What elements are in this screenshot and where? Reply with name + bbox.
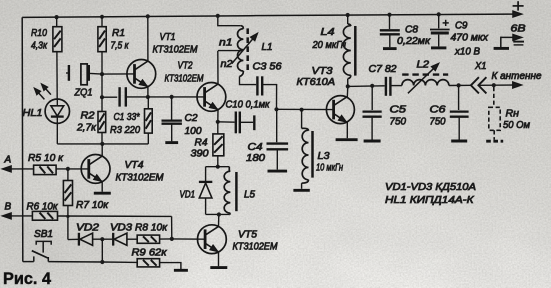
capacitor C8 xyxy=(380,30,400,34)
label C1 33* xyxy=(114,112,141,123)
wire VT2 collector xyxy=(217,51,219,84)
led HL1 emission arrows xyxy=(35,84,51,99)
node R2-VT4col xyxy=(100,142,104,146)
wire R1-node xyxy=(101,52,103,74)
wire C9 bottom xyxy=(438,35,440,47)
label C5 value xyxy=(390,117,407,128)
inductor L1 xyxy=(238,26,244,77)
wire L3 bottom xyxy=(301,183,303,189)
label C3 56 xyxy=(253,62,282,73)
label R1 xyxy=(112,28,125,39)
label VT4 xyxy=(125,160,144,171)
label 6 V xyxy=(511,24,526,35)
wire base bus VT3 xyxy=(277,108,334,110)
wire L4 top xyxy=(347,15,349,24)
wire R3 bottom xyxy=(147,133,149,144)
capacitor C9 (polar) xyxy=(430,30,450,34)
svg-text:С10 0,1мк: С10 0,1мк xyxy=(226,100,271,111)
label C8 xyxy=(405,25,418,36)
svg-text:n2: n2 xyxy=(221,59,233,70)
wire VT1 base xyxy=(102,73,135,75)
label VT5 type xyxy=(233,242,279,253)
svg-text:КТ610А: КТ610А xyxy=(297,77,336,88)
label C10 0,1mk xyxy=(226,100,271,111)
inductor L3 core xyxy=(311,131,314,178)
svg-text:С1 33*: С1 33* xyxy=(114,112,141,123)
svg-text:R5 10 к: R5 10 к xyxy=(28,153,64,164)
label 4,3k xyxy=(31,41,48,52)
svg-text:n1: n1 xyxy=(219,38,233,49)
svg-text:КТ3102ЕМ: КТ3102ЕМ xyxy=(153,45,199,56)
resistor R1 xyxy=(98,27,106,52)
label VD2 xyxy=(76,223,100,234)
inductor L2 arrow xyxy=(408,64,439,94)
led HL1 xyxy=(45,99,69,123)
label C9 value1 xyxy=(451,33,490,44)
wire R8-node xyxy=(160,238,172,240)
svg-text:R3 220: R3 220 xyxy=(110,125,140,136)
wire R7corner-VD2 xyxy=(68,238,78,240)
node rail-R1 xyxy=(100,15,104,19)
label Rn value xyxy=(503,120,530,131)
label R9 62k xyxy=(132,248,168,259)
svg-text:VT4: VT4 xyxy=(125,160,144,171)
label C6 xyxy=(430,105,447,116)
svg-text:КТ3102ЕМ: КТ3102ЕМ xyxy=(165,74,205,85)
wire VD-R9 vertical xyxy=(101,239,103,262)
label n2 xyxy=(221,59,233,70)
label R8 10k xyxy=(135,223,168,234)
label R5 10k xyxy=(28,153,64,164)
wire R2 top xyxy=(101,97,103,111)
label VT3 type xyxy=(297,77,336,88)
wire R9 right xyxy=(160,263,181,270)
wire VT3col-C7 xyxy=(348,85,385,88)
label = (minus) xyxy=(513,42,524,45)
wire VD3-R8 xyxy=(127,238,137,240)
label L5 xyxy=(244,190,255,201)
wire tank bottom xyxy=(206,213,230,215)
node VT1e-R3 xyxy=(146,95,150,99)
svg-text:Рис. 4: Рис. 4 xyxy=(3,270,52,288)
ground Rn (dashed) xyxy=(486,140,503,143)
wire C8 top xyxy=(389,15,391,29)
wire left rail xyxy=(21,17,24,261)
wire VT2e-R4 xyxy=(217,122,219,134)
wire R10-HL1 xyxy=(56,52,58,99)
label C2 value xyxy=(185,126,202,137)
wire node down xyxy=(101,74,103,97)
wire VT1 collector xyxy=(147,16,149,61)
ground C4 xyxy=(268,170,288,173)
label B xyxy=(5,202,12,213)
svg-text:VT1: VT1 xyxy=(160,32,176,43)
label L3 xyxy=(318,151,330,162)
wire VT4 emitter xyxy=(101,182,103,192)
wire C2 bottom xyxy=(171,125,173,142)
wire R4 bottom xyxy=(217,156,219,167)
svg-text:L4: L4 xyxy=(321,27,336,38)
svg-text:0,22мк: 0,22мк xyxy=(397,36,431,47)
label K antenne xyxy=(492,71,542,82)
svg-text:С7 82: С7 82 xyxy=(369,64,397,75)
node R7-B cross xyxy=(66,215,69,218)
terminal B arrow xyxy=(3,213,12,219)
svg-text:750: 750 xyxy=(390,117,407,128)
wire R7 bottom xyxy=(67,206,69,240)
svg-text:750: 750 xyxy=(430,117,446,128)
capacitor C6 xyxy=(450,112,469,117)
label C4 value xyxy=(246,153,265,164)
node rail-L4 xyxy=(346,13,350,17)
svg-text:В: В xyxy=(5,202,12,213)
svg-text:R9 62к: R9 62к xyxy=(132,248,168,259)
svg-text:L2: L2 xyxy=(417,60,430,71)
svg-text:6В: 6В xyxy=(511,24,526,35)
label R7 10k xyxy=(76,200,109,211)
svg-text:L3: L3 xyxy=(318,151,330,162)
label R4 xyxy=(195,138,208,149)
resistor R2 xyxy=(98,112,106,133)
ground L3 xyxy=(293,189,309,192)
resistor R10 xyxy=(53,27,62,52)
label X1 xyxy=(474,61,486,72)
inductor L4 xyxy=(343,24,350,79)
wire R7 top xyxy=(67,169,69,181)
inductor L2 core xyxy=(402,73,448,75)
svg-text:VD2: VD2 xyxy=(76,223,100,234)
label C7 82 xyxy=(369,64,397,75)
switch SB1 xyxy=(23,241,51,261)
capacitor C2 xyxy=(162,121,182,124)
wire VT2 emitter xyxy=(217,110,219,122)
svg-text:R8 10к: R8 10к xyxy=(135,223,168,234)
ground C9 xyxy=(431,46,446,49)
node rail-C8 xyxy=(387,13,391,17)
ground R9 xyxy=(174,269,188,272)
inductor L4 core xyxy=(354,26,357,76)
wire C3-node xyxy=(262,85,276,110)
wire VD1 branch xyxy=(205,167,207,181)
wire L2-X1 xyxy=(449,84,471,86)
wire C6 top xyxy=(458,85,460,110)
wire VT5 collector xyxy=(218,215,220,227)
resistor R3 xyxy=(145,109,153,133)
label 7,5k xyxy=(111,41,130,52)
wire emitter bus xyxy=(126,96,205,98)
crystal ZQ1 xyxy=(66,64,102,85)
label 2,7k xyxy=(76,123,97,134)
wire A-R5 xyxy=(3,168,34,170)
node C2 top xyxy=(170,95,174,99)
svg-text:R1: R1 xyxy=(112,28,125,39)
svg-text:50 Ом: 50 Ом xyxy=(503,120,530,131)
wire C10 stub xyxy=(240,115,255,130)
label C4 xyxy=(248,142,263,153)
connector X1 xyxy=(471,77,487,93)
svg-text:КТ3102ЕМ: КТ3102ЕМ xyxy=(116,173,165,184)
wire VD1 bottom xyxy=(205,198,207,214)
node VT2e xyxy=(216,120,220,124)
node C5 top xyxy=(370,84,374,88)
inductor L1 core xyxy=(246,28,249,71)
svg-text:R4: R4 xyxy=(195,138,208,149)
label Ris. 4 xyxy=(3,270,52,288)
wire R2 bottom xyxy=(101,133,103,144)
wire C7-L2 xyxy=(390,85,402,87)
wire Rn dashed top xyxy=(493,87,495,107)
label VT3 xyxy=(312,66,333,77)
svg-text:С8: С8 xyxy=(405,25,418,36)
label VT5 xyxy=(238,230,257,241)
wire C1 left xyxy=(102,96,117,98)
transistor VT5 xyxy=(198,225,227,254)
resistor R7 xyxy=(63,181,72,206)
resistor Rn (dashed) xyxy=(489,107,500,130)
svg-text:20 мкГн: 20 мкГн xyxy=(312,40,347,51)
node Rn xyxy=(492,83,496,87)
node rail-C9 xyxy=(437,12,441,16)
wire C8 bottom xyxy=(389,35,391,47)
capacitor C1 xyxy=(120,87,126,106)
label R6 10k xyxy=(27,202,59,213)
transistor VT1 xyxy=(127,60,156,89)
svg-text:HL1: HL1 xyxy=(23,108,43,119)
svg-text:КТ3102ЕМ: КТ3102ЕМ xyxy=(233,242,279,253)
svg-text:А: А xyxy=(4,155,12,166)
label L4 value xyxy=(312,40,347,51)
label VD1 xyxy=(180,190,196,201)
svg-text:2,7к: 2,7к xyxy=(76,123,97,134)
svg-text:х10 В: х10 В xyxy=(454,47,480,58)
wire LED-R2-R3 bus xyxy=(57,143,148,145)
node rail-R10 xyxy=(55,15,59,19)
diode VD2 xyxy=(79,233,93,246)
diode VD3 xyxy=(113,233,127,246)
label VT1 xyxy=(160,32,176,43)
svg-text:С6: С6 xyxy=(430,105,447,116)
label L3 value xyxy=(316,163,343,174)
wire L1 tap n1 xyxy=(218,50,244,52)
capacitor C4 xyxy=(267,144,289,150)
label VT2 xyxy=(178,61,193,72)
svg-text:10 мкГн: 10 мкГн xyxy=(316,163,343,174)
ground C2 xyxy=(165,141,178,144)
wire C9 top xyxy=(438,14,440,28)
svg-text:VT5: VT5 xyxy=(238,230,257,241)
svg-text:470 мкх: 470 мкх xyxy=(451,33,490,44)
transistor VT3 xyxy=(326,96,354,124)
label A xyxy=(4,155,12,166)
svg-text:R6 10к: R6 10к xyxy=(27,202,59,213)
wire Rn dashed bottom xyxy=(493,130,495,140)
label VT1 type xyxy=(153,45,199,56)
wire X1-antenna xyxy=(479,84,521,86)
label VT2 type xyxy=(165,74,205,85)
wire corner down to VT5 xyxy=(171,216,173,239)
node rail-VT1 xyxy=(146,14,150,18)
label L1 xyxy=(262,42,273,53)
svg-text:ZQ1: ZQ1 xyxy=(74,88,93,99)
node C6 top xyxy=(457,83,461,87)
wire L3 top xyxy=(301,110,303,129)
label C8 value xyxy=(397,36,431,47)
label VD3 xyxy=(110,223,132,234)
inductor L2 xyxy=(402,80,449,86)
node VD-R9 xyxy=(100,237,104,241)
wire +6V top rail xyxy=(22,14,520,17)
label C9 plus xyxy=(443,20,449,26)
svg-text:С5: С5 xyxy=(390,105,407,116)
resistor R9 xyxy=(137,259,159,267)
wire VT4 collector xyxy=(101,144,103,156)
node base-L3 xyxy=(300,108,304,112)
wire C5 top xyxy=(371,86,373,110)
label C9 xyxy=(455,21,468,32)
wire tank top xyxy=(206,166,230,168)
label SB1 xyxy=(34,229,53,240)
label ZQ1 xyxy=(74,88,93,99)
wire C4 top xyxy=(276,109,278,142)
svg-text:К антенне: К антенне xyxy=(492,71,542,82)
wire R10 top xyxy=(56,17,58,27)
label C2 xyxy=(185,113,198,124)
label R10 xyxy=(31,28,47,39)
terminal A arrow xyxy=(3,166,12,172)
wire B-R6 xyxy=(3,215,33,217)
svg-text:7,5 к: 7,5 к xyxy=(111,41,130,52)
node C1-R2 xyxy=(100,95,104,99)
resistor R8 xyxy=(137,235,159,243)
svg-text:R10: R10 xyxy=(31,28,47,39)
svg-text:HL1 КИПД14А-К: HL1 КИПД14А-К xyxy=(385,195,475,206)
svg-text:Rн: Rн xyxy=(506,109,520,120)
node C3-C4 xyxy=(274,107,278,111)
ground C8 xyxy=(383,47,397,50)
capacitor C7 xyxy=(386,77,391,96)
svg-text:R7 10к: R7 10к xyxy=(76,200,109,211)
label + (plus) xyxy=(513,1,524,10)
svg-text:VD1: VD1 xyxy=(180,190,196,201)
wire VT2e-C10 xyxy=(218,121,235,123)
wire VT1 emitter xyxy=(147,87,149,97)
wire VT5 base xyxy=(172,238,205,240)
svg-text:С3 56: С3 56 xyxy=(253,62,282,73)
wire L4 bottom xyxy=(347,79,349,87)
wire HL1-node xyxy=(56,123,58,143)
wire C2 top xyxy=(171,97,173,120)
label n1 xyxy=(219,38,233,49)
transistor VT2 xyxy=(197,83,226,112)
capacitor C5 xyxy=(363,112,382,117)
node ZQ1-VT1base xyxy=(100,72,104,76)
svg-text:Х1: Х1 xyxy=(474,61,486,72)
wire VT3 collector xyxy=(346,86,349,97)
wire C5 bottom xyxy=(371,118,373,140)
svg-text:L1: L1 xyxy=(262,42,273,53)
wire VT3 emitter xyxy=(346,122,348,138)
svg-text:С4: С4 xyxy=(248,142,263,153)
svg-text:VD1-VD3 КД510А: VD1-VD3 КД510А xyxy=(385,182,476,193)
svg-text:VD3: VD3 xyxy=(110,223,132,234)
wire VD2-VD3 xyxy=(93,238,113,240)
wire R1 top xyxy=(101,17,103,27)
svg-text:R2: R2 xyxy=(81,111,95,122)
wire C6 bottom xyxy=(458,118,460,140)
resistor R6 xyxy=(32,211,57,220)
label L4 xyxy=(321,27,336,38)
ground C5 xyxy=(364,140,381,143)
svg-text:L5: L5 xyxy=(244,190,255,201)
ground minus terminal xyxy=(494,47,509,50)
ground C6 xyxy=(451,140,467,143)
label Rn xyxy=(506,109,520,120)
wire L1 bottom xyxy=(240,76,257,84)
wire minus terminal xyxy=(501,37,520,48)
terminal antenna arrow xyxy=(513,82,522,88)
label 390 xyxy=(191,149,209,160)
svg-text:С2: С2 xyxy=(185,113,198,124)
svg-text:100: 100 xyxy=(185,126,202,137)
wire SB1-R9line xyxy=(48,261,102,263)
label note led xyxy=(385,195,475,206)
label R2 xyxy=(81,111,95,122)
wire VT5 emitter xyxy=(218,252,220,266)
svg-text:SВ1: SВ1 xyxy=(34,229,53,240)
node L4-VT3 xyxy=(346,84,350,88)
capacitor C3 xyxy=(257,76,262,95)
terminal +6V arrow xyxy=(513,11,522,17)
svg-text:180: 180 xyxy=(246,153,265,164)
wire R3 top xyxy=(147,97,149,109)
svg-text:390: 390 xyxy=(191,149,209,160)
diode VD1 xyxy=(199,182,212,198)
ground VT5 xyxy=(210,266,227,269)
label C6 value xyxy=(430,117,446,128)
label C9 value2 xyxy=(454,47,480,58)
label HL1 xyxy=(23,108,43,119)
svg-text:VT3: VT3 xyxy=(312,66,333,77)
svg-text:4,3к: 4,3к xyxy=(31,41,48,52)
inductor L5 xyxy=(224,167,230,215)
resistor R5 xyxy=(34,165,57,174)
node tank-VT5col xyxy=(217,212,221,216)
node R9 line xyxy=(100,260,104,264)
wire C4 bottom xyxy=(276,151,278,170)
label C5 xyxy=(390,105,407,116)
node rail-L1 xyxy=(216,14,220,18)
node VT5 base xyxy=(170,237,174,241)
wire R6-VT5base xyxy=(58,215,172,217)
svg-text:VT2: VT2 xyxy=(178,61,193,72)
wire R9 left xyxy=(102,261,137,263)
transistor VT4 xyxy=(81,155,110,184)
label VT4 type xyxy=(116,173,165,184)
node R4-tank xyxy=(216,165,220,169)
ground VT4 xyxy=(94,192,111,195)
inductor L1 arrow xyxy=(232,34,257,64)
svg-text:С9: С9 xyxy=(455,21,468,32)
capacitor C10 xyxy=(236,112,240,134)
terminal -6V arrow xyxy=(513,35,522,41)
node A-R7 xyxy=(66,167,70,171)
wire rail-L1 xyxy=(218,16,241,26)
inductor L3 xyxy=(302,128,309,183)
label note diodes xyxy=(385,182,476,193)
label L2 xyxy=(417,60,430,71)
label R3 220 xyxy=(110,125,140,136)
wire R5-VT4 xyxy=(56,168,89,170)
